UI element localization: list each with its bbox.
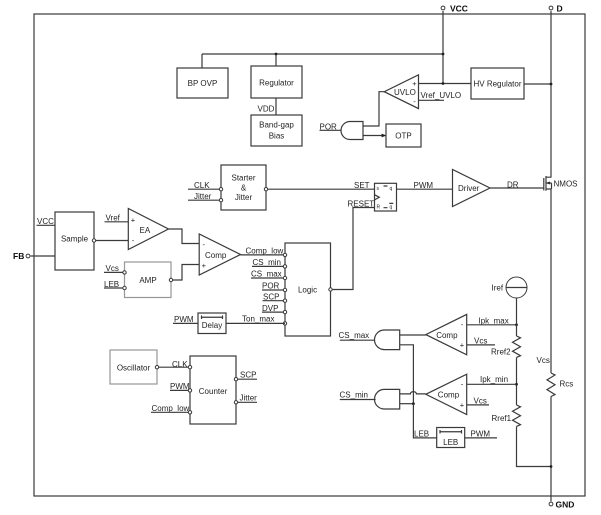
block OTP [386,124,421,147]
comparator Comp lower [426,374,467,414]
svg-text:Driver: Driver [458,184,480,193]
port Counter PWM [188,389,191,392]
junction HV/D line [550,83,553,86]
pin D [549,4,563,14]
svg-text:CS_min: CS_min [340,391,368,400]
wire Ipk_max comp to divider [467,324,517,326]
svg-text:EA: EA [140,226,151,235]
arrowhead at OTP input [382,134,387,138]
wire CS_max gate down the shared vertical [400,345,414,404]
block LEB [437,428,465,448]
svg-text:DVP: DVP [262,304,278,313]
wire FB to Sample [31,255,55,257]
buffer Driver [453,170,491,207]
wire VDD Regulator to Band-gap [275,98,277,115]
svg-text:Rref2: Rref2 [491,348,511,357]
block AMP [125,262,172,298]
wire Rref2 to Rref1 [516,358,518,406]
wire POR gate to UVLO apex [363,92,384,126]
svg-text:q: q [390,186,393,192]
block Counter [190,356,236,424]
port Oscillator out [155,366,158,369]
net label POR with stub [262,282,285,291]
wire D pin to NMOS drain [550,11,552,177]
svg-text:PWM: PWM [170,382,190,391]
net label CLK with stub [188,181,221,190]
svg-text:VDD: VDD [258,105,275,114]
op-amp EA [128,209,168,250]
svg-text:Vcs: Vcs [474,397,487,406]
wire Delay to Logic Ton_max [226,322,285,324]
svg-text:-: - [132,236,135,245]
junction bus/Regulator [275,53,278,56]
wire AMP out to Comp plus [173,265,199,281]
junction VCC line / UVLO input [442,82,445,85]
svg-text:Counter: Counter [199,387,228,396]
svg-text:BP OVP: BP OVP [188,79,218,88]
net label Jitter with stub [238,393,257,402]
wire Oscillator to Counter [159,366,190,368]
block Delay [198,313,226,334]
svg-text:SET: SET [354,181,370,190]
svg-text:Rref1: Rref1 [492,414,512,423]
svg-text:CLK: CLK [172,360,188,369]
svg-text:+: + [131,216,136,225]
svg-text:SCP: SCP [240,371,256,380]
port Sample out [92,239,95,242]
net label PWM with stub into Delay [173,315,198,324]
gate AND CS_max (left-rounded) [374,330,399,350]
resistor Rcs [547,373,573,397]
svg-text:Rcs: Rcs [560,379,574,388]
svg-text:OTP: OTP [395,132,411,141]
svg-text:CS_min: CS_min [253,258,281,267]
wire RESET from Logic [333,208,375,290]
port Logic SCP [283,299,286,302]
net label SCP with stub [263,292,286,301]
svg-text:Bias: Bias [269,132,285,141]
svg-text:CS_max: CS_max [251,270,282,279]
port Starter Jitter [219,199,222,202]
port Counter Comp_low [188,411,191,414]
port Logic CS_max [283,276,286,279]
svg-text:-: - [461,320,464,329]
net label CS_max with stub [251,270,285,279]
svg-text:LEB: LEB [414,430,429,439]
svg-text:Ipk_min: Ipk_min [480,375,508,384]
block Regulator [251,66,302,98]
svg-text:-: - [203,240,206,249]
svg-text:Band-gap: Band-gap [259,121,294,130]
wire CS_min gate to lower Comp apex with hop [400,392,426,394]
net label Comp_low with stub [151,404,190,413]
svg-text:Comp_low: Comp_low [152,404,190,413]
wire NMOS source down to Rcs [550,189,552,373]
net label Jitter with stub [188,192,221,201]
block Band-gap Bias [251,115,302,146]
net label Vref with stub [105,213,129,222]
block Logic [285,243,331,336]
wire Iref to Rref2 [516,298,518,336]
pin GND [549,500,574,510]
resistor Rref1 [492,405,521,426]
wire shared vertical to LEB block [413,404,436,438]
wire bus to Regulator [275,54,277,66]
svg-text:Delay: Delay [202,321,222,330]
wire UVLO plus input to HV Regulator [419,83,472,85]
wire HV Regulator to D line [524,83,551,85]
junction shared vertical [412,402,415,405]
svg-text:-: - [413,97,416,106]
port Logic Ton_max [283,322,286,325]
pin FB [13,251,30,261]
wire bus to BP OVP [201,54,203,68]
svg-text:Vcs: Vcs [474,337,487,346]
svg-text:SCP: SCP [263,292,279,301]
svg-text:Logic: Logic [298,285,317,294]
svg-text:PWM: PWM [174,315,194,324]
block BP OVP [177,68,228,98]
svg-text:VCC: VCC [450,4,468,14]
svg-text:+: + [202,261,207,270]
port Logic out [329,288,332,291]
net label PWM with stub LEB out [465,430,497,439]
port Logic DVP [283,310,286,313]
gate AND CS_min (left-rounded) [374,389,399,409]
svg-text:HV Regulator: HV Regulator [473,80,521,89]
wire CS_max gate to upper Comp apex [400,334,426,336]
wire EA out to Comp minus [169,229,200,244]
junction ground rail [550,465,553,468]
block Oscillator [110,350,157,384]
port Logic Comp_low [283,253,286,256]
svg-text:+: + [460,341,465,350]
svg-text:D: D [557,4,563,14]
block Sample [55,212,94,270]
svg-text:AMP: AMP [139,276,156,285]
svg-text:q: q [390,205,393,211]
net label PWM with stub [170,382,190,391]
net label SCP with stub [238,371,257,380]
resistor Rref2 [491,336,521,357]
current source Iref [492,277,528,298]
comparator UVLO [384,75,418,109]
svg-text:+: + [460,400,465,409]
transistor NMOS [544,176,578,191]
svg-text:Vref_UVLO: Vref_UVLO [421,91,462,100]
svg-text:Comp_low: Comp_low [246,246,284,255]
port AMP LEB [123,286,126,289]
wire Comp out to Logic [241,254,286,256]
svg-text:Regulator: Regulator [259,79,294,88]
port Starter out [264,188,267,191]
net label Vcs with stub [104,264,125,273]
wire Rref1 to ground rail [517,427,552,467]
net label DVP with stub [262,304,285,313]
wire VCC pin vertical [442,11,444,84]
wire CS_min gate to shared vertical [400,403,414,405]
port Logic POR [283,288,286,291]
svg-text:Comp: Comp [438,391,460,400]
net label POR with stub [320,122,342,131]
svg-text:Oscillator: Oscillator [117,363,151,372]
svg-text:VCC: VCC [37,217,54,226]
net label VCC with stub into Sample [37,217,56,226]
block Starter & Jitter [221,165,266,210]
svg-text:LEB: LEB [443,438,458,447]
net label CS_max with wire to gate [339,331,376,340]
svg-text:Ton_max: Ton_max [242,315,274,324]
svg-text:Comp: Comp [205,251,227,260]
gate POR (left-rounded) [341,122,363,140]
svg-text:&: & [241,183,247,192]
svg-text:Vcs: Vcs [537,356,550,365]
comparator Comp upper [426,314,467,354]
svg-text:Jitter: Jitter [240,393,258,402]
svg-text:GND: GND [556,500,575,510]
latch SR flip-flop [375,183,397,211]
pin VCC [441,4,468,14]
svg-text:FB: FB [13,251,24,261]
wire latch to Driver [397,188,453,190]
svg-text:Vref: Vref [106,213,121,222]
svg-text:Ipk_max: Ipk_max [479,316,509,325]
wire Driver to NMOS gate [490,187,544,189]
net label LEB with stub [104,280,125,289]
junction Ipk_min [515,383,518,386]
svg-text:NMOS: NMOS [554,179,578,188]
wire SET Starter to latch [268,188,375,190]
net label CS_min with stub [252,258,285,267]
svg-text:CLK: CLK [194,181,210,190]
svg-text:Sample: Sample [61,235,89,244]
port Counter CLK [188,366,191,369]
wire Sample to EA minus [96,240,128,242]
svg-text:PWM: PWM [414,181,434,190]
svg-text:Starter: Starter [231,173,255,182]
net label Vcs with stub upper comp [467,337,495,346]
net label CS_min with wire to gate [340,391,376,400]
svg-text:CS_max: CS_max [339,331,370,340]
svg-text:PWM: PWM [471,430,491,439]
wire Rcs to GND [550,397,552,502]
svg-text:POR: POR [262,282,280,291]
port AMP Vcs [123,271,126,274]
svg-text:R: R [377,205,381,211]
svg-text:Comp: Comp [436,331,458,340]
port Counter Jitter [234,401,237,404]
net label Vref_UVLO with stub [419,91,462,100]
junction VCC/bus [442,53,445,56]
net label Vcs with stub lower comp [467,397,489,406]
block HV Regulator [471,68,524,99]
port Logic CS_min [283,265,286,268]
port Starter CLK [219,188,222,191]
svg-text:UVLO: UVLO [394,88,416,97]
wire Ipk_min comp to divider [467,383,517,385]
svg-text:-: - [461,380,464,389]
port Counter SCP [234,378,237,381]
comparator Comp main [199,234,240,275]
wire POR gate to OTP [363,135,385,137]
svg-text:+: + [412,79,417,88]
svg-text:Jitter: Jitter [235,193,253,202]
svg-text:Iref: Iref [492,283,504,292]
wire VCC bus top [202,53,443,55]
junction Ipk_max [515,323,518,326]
port AMP out [169,278,172,281]
